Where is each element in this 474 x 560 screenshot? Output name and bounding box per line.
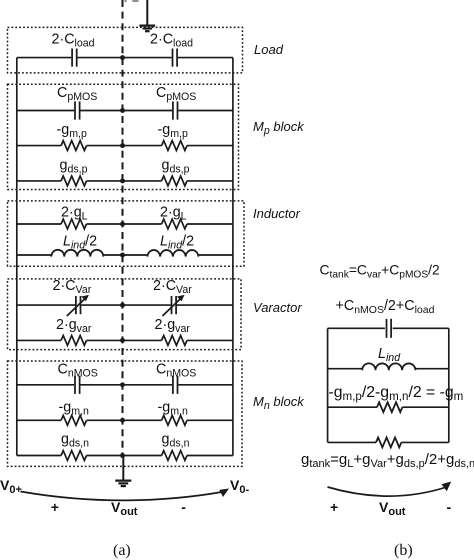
junction: load row / VG <box>120 55 125 60</box>
resistor 2·gvar (right) <box>162 336 187 346</box>
wire: tank box top (with Ctank capacitor) <box>328 327 385 329</box>
resistor -gm,p (right) <box>162 141 187 151</box>
inductor Lind/2 (left) <box>51 250 103 257</box>
wire: CnMOS row <box>17 384 74 386</box>
virtual-ground dashed line (net VG) <box>122 0 124 456</box>
capacitor 2·Cload (right) <box>173 49 178 67</box>
junction: -gm,n row / VG <box>120 418 125 423</box>
wire: tank box right <box>448 328 450 442</box>
Inductor block boundary <box>8 201 245 266</box>
capacitor Ctank <box>387 319 392 338</box>
junction: inductor row / VG <box>120 253 125 258</box>
svg-text:Inductor: Inductor <box>253 206 301 221</box>
wire: CpMOS row <box>17 110 74 112</box>
svg-text:+: + <box>330 499 338 515</box>
ground (top) <box>139 0 155 31</box>
resistor 2·gL (right) <box>162 219 187 229</box>
svg-text:-: - <box>181 499 186 515</box>
svg-text:Varactor: Varactor <box>253 300 302 315</box>
wire: gds,n row <box>17 455 61 457</box>
capacitor CpMOS (right) <box>173 101 178 119</box>
ground (bottom) <box>115 456 131 487</box>
inductor Lind (b) <box>328 363 449 370</box>
svg-text:(a): (a) <box>113 542 131 559</box>
resistor -gm,n (right) <box>162 415 187 425</box>
junction: CnMOS row / VG <box>120 382 125 387</box>
capacitor CnMOS (left) <box>75 376 80 394</box>
junction: CpMOS row / VG <box>120 108 125 113</box>
resistor gds,n (right) <box>162 451 187 461</box>
resistor 2·gL (left) <box>61 219 86 229</box>
resistor gds,n (left) <box>61 451 86 461</box>
junction: gds,p row / VG <box>120 178 125 183</box>
wire: tank box left <box>327 328 329 442</box>
wire: inductor row <box>17 254 52 256</box>
varactor 2·CVar (left) <box>67 295 89 316</box>
svg-text:(b): (b) <box>394 542 413 559</box>
wire: gds,p row <box>17 180 61 182</box>
resistor -gm (b) <box>328 402 449 412</box>
resistor -gm,n (left) <box>61 415 86 425</box>
capacitor 2·Cload (left) <box>72 49 77 67</box>
wire: tank box bottom with gtank resistor <box>328 438 449 448</box>
junction: -gm,p row / VG <box>120 143 125 148</box>
wire: load row <box>17 57 71 59</box>
resistor 2·gvar (left) <box>61 336 86 346</box>
svg-text:-: - <box>447 499 452 515</box>
inductor Lind/2 (right) <box>147 250 198 257</box>
capacitor CnMOS (right) <box>173 376 178 394</box>
junction: 2·gvar row / VG <box>120 338 125 343</box>
Mp block boundary <box>8 84 239 189</box>
junction: gds,n row / VG <box>120 453 125 458</box>
Varactor block boundary <box>8 279 242 350</box>
Vout arc arrow (a) <box>21 489 230 501</box>
wire: 2·gvar row <box>17 339 61 341</box>
resistor -gm,p (left) <box>61 141 86 151</box>
wire: varactor row <box>17 304 75 306</box>
svg-text:Load: Load <box>254 42 284 57</box>
wire: 2·gL row <box>17 223 61 225</box>
capacitor CpMOS (left) <box>75 101 80 119</box>
varactor 2·CVar (right) <box>162 295 184 316</box>
wire: left rail <box>16 58 18 456</box>
resistor gds,p (left) <box>61 176 86 186</box>
svg-text:+: + <box>51 499 59 515</box>
Vout arc arrow (b) <box>328 482 452 497</box>
Mn block boundary <box>8 361 243 466</box>
wire: -gm,p row <box>17 145 61 147</box>
wire: -gm,n row <box>17 419 61 421</box>
wire: right rail <box>232 58 234 456</box>
resistor gds,p (right) <box>162 176 187 186</box>
Load block boundary <box>8 27 243 73</box>
junction: varactor row / VG <box>120 303 125 308</box>
junction: 2·gL row / VG <box>120 222 125 227</box>
top supply stub (cropped gray) <box>124 0 138 2</box>
